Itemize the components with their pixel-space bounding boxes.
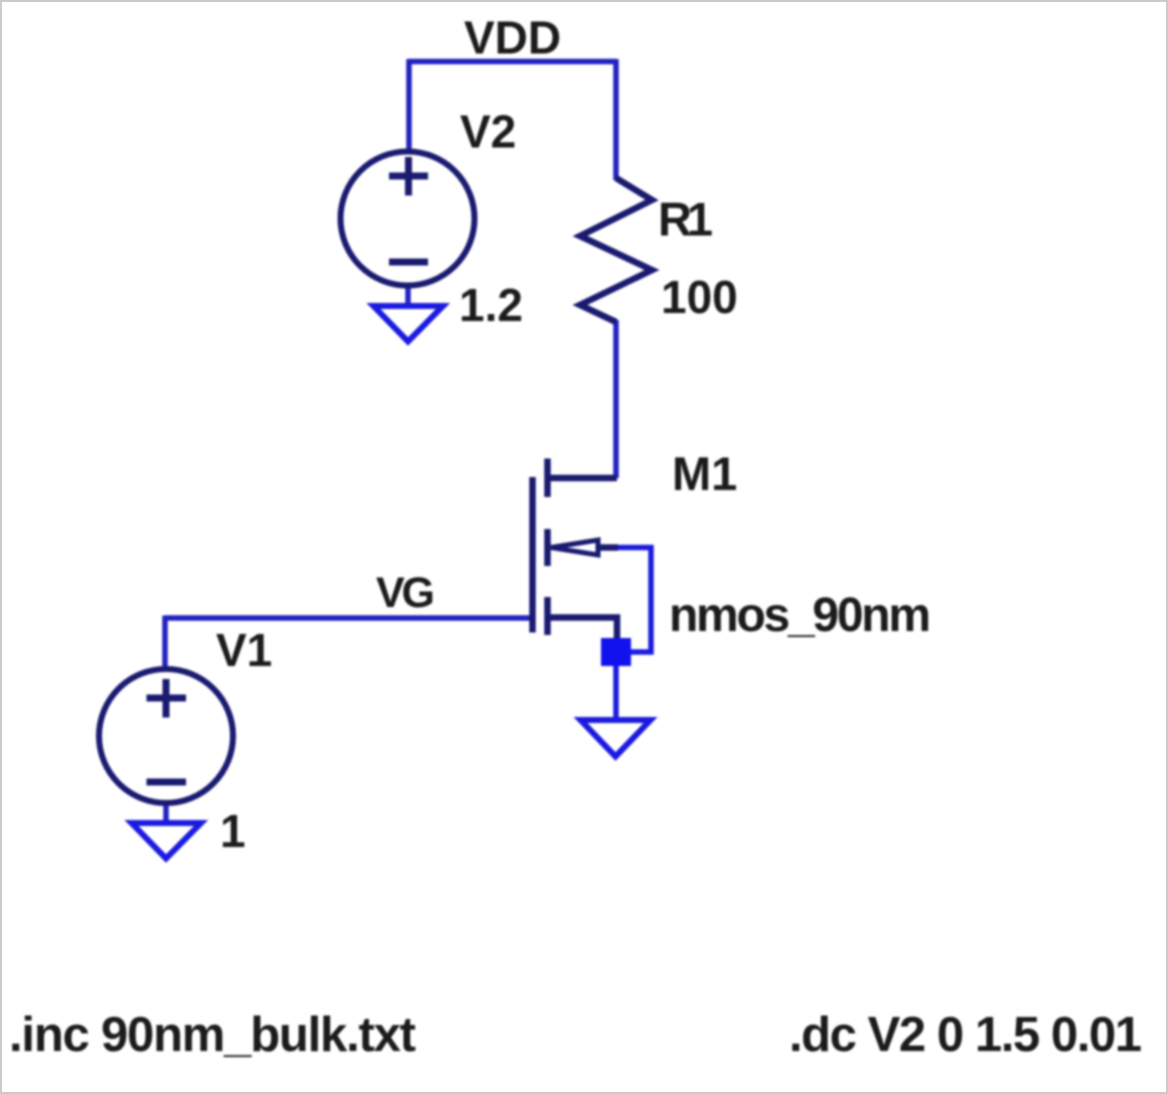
ground below V1	[132, 823, 202, 859]
wire VG horizontal	[165, 615, 532, 621]
svg-text:VG: VG	[376, 569, 435, 617]
bulk arrowhead	[551, 540, 598, 555]
svg-text:VDD: VDD	[464, 12, 561, 64]
gate line	[529, 477, 536, 633]
svg-text:V2: V2	[460, 106, 516, 158]
wire VG vertical to V1	[162, 616, 168, 668]
wire source to ground	[613, 664, 619, 721]
ground below M1 source	[581, 720, 651, 757]
voltage source V1	[99, 669, 233, 803]
bulk arrow shaft	[598, 544, 618, 551]
wire VDD top horizontal	[409, 59, 616, 65]
junction square	[601, 638, 631, 666]
wire R1 top lead	[613, 59, 619, 180]
wire R1 bottom lead to drain	[613, 320, 619, 478]
svg-text:R1: R1	[658, 193, 713, 246]
resistor R1	[580, 178, 652, 322]
wire V1 bottom stub	[163, 803, 169, 823]
svg-text:nmos_90nm: nmos_90nm	[669, 589, 931, 642]
svg-text:V1: V1	[216, 624, 272, 676]
ground below V2	[374, 306, 444, 342]
svg-text:.inc 90nm_bulk.txt: .inc 90nm_bulk.txt	[9, 1008, 416, 1062]
drain lead	[548, 475, 618, 482]
svg-text:1.2: 1.2	[459, 279, 523, 331]
wire V2 top vertical	[406, 59, 412, 152]
wire bulk to source	[617, 548, 651, 653]
channel bar top	[544, 459, 551, 498]
svg-text:100: 100	[661, 271, 738, 323]
wire V2 bottom stub	[405, 286, 411, 306]
source lead	[548, 618, 618, 642]
svg-text:1: 1	[220, 805, 246, 857]
voltage source V2	[341, 152, 475, 286]
svg-text:M1: M1	[672, 447, 737, 500]
channel bar bottom	[544, 597, 551, 635]
svg-text:.dc V2 0 1.5 0.01: .dc V2 0 1.5 0.01	[789, 1008, 1142, 1062]
channel bar middle	[544, 529, 551, 566]
transistor M1	[533, 459, 619, 642]
